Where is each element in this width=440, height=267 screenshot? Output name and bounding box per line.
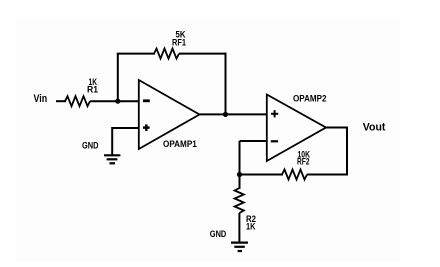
svg-text:R1: R1	[87, 85, 98, 95]
wire opamp2 output	[326, 127, 347, 129]
resistor R2	[235, 188, 244, 213]
svg-text:RF1: RF1	[172, 38, 186, 48]
op-amp U1 minus pin symbol	[143, 99, 150, 102]
resistor RF2	[282, 170, 307, 180]
node junction dot at opamp1 output	[223, 112, 228, 117]
wire feedback bottom right segment	[307, 174, 348, 176]
svg-text:GND: GND	[82, 140, 99, 150]
wire feedback left vertical	[117, 54, 119, 102]
svg-text:RF2: RF2	[297, 157, 310, 167]
svg-text:Vin: Vin	[34, 93, 48, 105]
wire feedback top left segment	[117, 53, 155, 55]
wire feedback bottom left segment	[240, 174, 284, 176]
wire output down right side	[346, 127, 348, 175]
svg-text:OPAMP2: OPAMP2	[293, 94, 327, 105]
wire feedback top right segment	[179, 53, 226, 55]
svg-text:1K: 1K	[246, 221, 256, 231]
ground (R2)	[231, 242, 248, 244]
op-amp U2 minus pin symbol	[271, 140, 278, 142]
wire Vin to R1	[56, 100, 66, 102]
wire minus input down to feedback node	[239, 141, 241, 175]
wire opamp1 output to opamp2 plus input	[200, 113, 267, 115]
wire R2 to ground	[238, 213, 240, 243]
node junction dot at R1/feedback	[115, 99, 120, 104]
svg-text:OPAMP1: OPAMP1	[163, 139, 197, 150]
resistor RF1	[154, 49, 179, 59]
ground (opamp1 plus input)	[104, 154, 120, 156]
svg-text:GND: GND	[210, 229, 227, 239]
svg-text:Vout: Vout	[363, 121, 386, 133]
wire R1 to opamp1 inverting input	[90, 100, 139, 102]
op-amp U2 triangle	[267, 95, 326, 162]
wire plus input down to ground	[111, 127, 113, 155]
wire feedback right vertical	[225, 53, 227, 115]
wire opamp2 minus input	[240, 140, 267, 142]
wire node down to R2	[239, 175, 241, 190]
op-amp U2 plus pin symbol	[271, 113, 278, 115]
op-amp U1 plus pin symbol	[143, 126, 150, 128]
resistor R1	[65, 96, 90, 106]
node junction dot at feedback/R2	[237, 172, 242, 177]
wire opamp1 plus input	[112, 127, 139, 129]
op-amp U1 triangle	[139, 80, 200, 149]
